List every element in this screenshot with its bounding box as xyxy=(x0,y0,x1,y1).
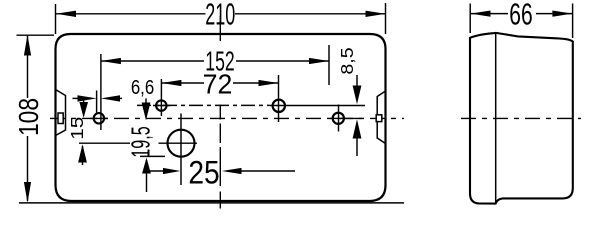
dim 66 arrow left xyxy=(471,11,491,17)
svg-text:66: 66 xyxy=(509,0,532,32)
upper hole row line xyxy=(137,104,270,106)
dim 210 arrow right xyxy=(366,11,386,17)
centerline stub through H4 xyxy=(330,117,345,119)
H1 right tangent / 152 ext line xyxy=(100,54,102,130)
dim 210 ext left xyxy=(55,4,57,34)
dim 210 line xyxy=(56,13,206,15)
dim 108 arrow top xyxy=(24,35,31,56)
dim 210 ext right xyxy=(385,3,387,34)
horizontal centerline xyxy=(50,117,404,119)
svg-text:19,5: 19,5 xyxy=(125,126,155,157)
right tab xyxy=(377,91,385,144)
dim 210 arrow left xyxy=(56,11,76,17)
center tick top xyxy=(219,16,221,41)
H2 vertical line xyxy=(160,79,162,116)
dim 66 ext right xyxy=(572,4,574,39)
side view seam line xyxy=(495,33,497,204)
vertical center dashed line xyxy=(219,105,221,120)
dim 66 arrow right xyxy=(552,11,572,17)
dim 25 left arrow xyxy=(147,170,164,172)
dim 15 upper arrow xyxy=(83,98,85,104)
dim 15 lower arrow xyxy=(82,146,84,165)
base line xyxy=(19,202,404,204)
right tab square xyxy=(376,115,382,122)
svg-text:8,5: 8,5 xyxy=(337,47,357,74)
hole H4 xyxy=(333,113,344,124)
svg-text:25: 25 xyxy=(188,156,219,191)
dim 108 line xyxy=(27,36,29,98)
dim 25 right arrow xyxy=(236,170,295,172)
dim 19.5 lower arrow xyxy=(146,160,148,192)
ref line 8.5 lower xyxy=(344,117,362,119)
big hole bottom tangent xyxy=(140,155,165,157)
big hole horizontal line xyxy=(79,142,130,144)
dim 6.6 right arrow xyxy=(107,97,123,99)
H4 vertical line xyxy=(338,105,340,132)
H3 vertical line xyxy=(278,75,280,122)
hole H2 xyxy=(156,100,166,110)
dim 72 line xyxy=(161,82,204,84)
dim 72 arrow right xyxy=(259,80,279,86)
svg-text:15: 15 xyxy=(68,117,87,140)
lamp body outline (front view) xyxy=(56,34,386,201)
H1 left tangent line xyxy=(96,91,98,113)
row line stub through H2 xyxy=(153,105,170,107)
dim 108 ext top xyxy=(17,34,55,36)
side view outline xyxy=(470,33,573,204)
left tab xyxy=(56,90,66,136)
svg-text:6,6: 6,6 xyxy=(131,75,154,98)
hole H3 xyxy=(273,100,285,112)
dim 66 line xyxy=(471,13,509,15)
dim 108 arrow bottom xyxy=(24,182,31,203)
dim 8.5 upper arrow xyxy=(356,75,358,88)
svg-text:210: 210 xyxy=(205,0,235,32)
hole H1 xyxy=(94,113,104,123)
dim 66 ext left xyxy=(469,4,471,34)
center tick bottom xyxy=(219,192,221,209)
dim 152 line xyxy=(101,60,204,62)
left tab square xyxy=(58,113,63,124)
dim 152 arrow left xyxy=(101,58,121,64)
big hole xyxy=(168,130,195,157)
centerline side view xyxy=(461,117,581,119)
dim 72 arrow left xyxy=(161,80,181,86)
centerline stub through H1 xyxy=(90,117,108,119)
big hole vertical line xyxy=(180,114,182,186)
dim 6.6 left arrow xyxy=(73,97,89,99)
svg-text:108: 108 xyxy=(14,98,44,136)
svg-text:72: 72 xyxy=(203,68,233,99)
dim 152 ext right xyxy=(328,45,330,85)
dim 8.5 lower arrow xyxy=(356,132,358,156)
dim 152 arrow right xyxy=(309,58,329,64)
dim 19.5 upper arrow xyxy=(145,98,147,105)
ref line 8.5 upper xyxy=(270,105,365,107)
